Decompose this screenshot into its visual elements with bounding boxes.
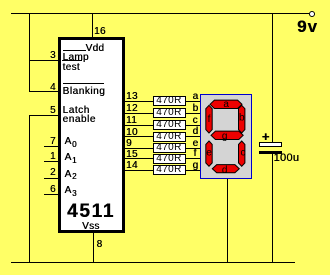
capacitor C1 top plate — [259, 142, 282, 147]
wire pin 3 — [29, 60, 60, 61]
svg-text:b: b — [239, 113, 245, 124]
net label f — [194, 149, 197, 159]
wire top 9v rail — [11, 13, 309, 14]
IC U1 4511 body — [58, 37, 126, 234]
wire pin 7 stub — [44, 146, 60, 147]
part number 4511 — [67, 202, 115, 221]
pin number 11 — [126, 116, 137, 126]
pin number 13 — [126, 92, 138, 102]
pin number 16 — [94, 27, 106, 37]
net label e — [193, 139, 199, 149]
pin number 7 — [50, 137, 56, 147]
pin number 9 — [126, 139, 132, 149]
pin number 6 — [50, 185, 56, 195]
wire pin 6 stub — [44, 194, 60, 195]
net label d — [193, 127, 199, 137]
wire output pin 11 to segment c — [123, 125, 201, 126]
pin label Lamp test — [63, 53, 89, 63]
wire capacitor to ground rail — [272, 154, 273, 262]
pin number 1 — [50, 152, 56, 162]
wire ground rail — [11, 262, 295, 263]
pin label Vdd — [86, 44, 105, 54]
wire output pin 10 to segment d — [123, 136, 201, 137]
pin number 15 — [126, 150, 138, 160]
pin number 4 — [50, 83, 56, 93]
overline for Lamp test — [63, 50, 86, 51]
resistor R5 470R — [153, 143, 186, 153]
pin label A2 — [65, 170, 72, 180]
value label 100u — [274, 153, 300, 164]
svg-text:g: g — [222, 131, 228, 142]
wire output pin 15 to segment f — [123, 158, 201, 159]
segment b — [239, 105, 245, 133]
resistor R4 470R — [153, 132, 186, 142]
resistor R6 470R — [153, 154, 186, 164]
label 9v — [297, 18, 318, 35]
wire output pin 13 to segment a — [123, 101, 201, 102]
pin number 12 — [126, 104, 138, 114]
wire left vertical from rail to pins 3 and 4 — [29, 13, 30, 92]
wire pin 5 — [29, 115, 60, 116]
wire output pin 9 to segment e — [123, 148, 201, 149]
pin label Blanking — [63, 87, 106, 97]
net label a — [193, 92, 199, 102]
segment a — [210, 100, 242, 108]
pin number 8 — [97, 240, 103, 250]
segment c — [239, 141, 245, 166]
wire capacitor vertical from 9v rail — [272, 13, 273, 142]
pin number 14 — [126, 161, 138, 171]
wire pin 16 from rail to IC top — [92, 13, 93, 39]
wire pin 4 — [29, 91, 60, 92]
capacitor C1 plus sign — [262, 130, 270, 143]
resistor R1 470R — [153, 96, 186, 106]
segment g — [211, 131, 243, 139]
resistor R2 470R — [153, 108, 186, 118]
pin number 5 — [50, 106, 56, 116]
svg-text:a: a — [223, 99, 229, 110]
wire pin 8 from IC bottom to ground rail — [93, 231, 94, 262]
wire output pin 14 to segment g — [123, 170, 201, 171]
node 9v terminal — [309, 11, 315, 17]
wire pin 2 stub — [44, 178, 60, 179]
pin number 10 — [126, 128, 138, 138]
7-segment display DS1 — [200, 94, 252, 179]
pin label Latch enable — [63, 106, 90, 116]
overline for Blanking — [63, 83, 104, 84]
pin label A0 — [65, 137, 72, 147]
net label b — [193, 104, 199, 114]
wire output pin 12 to segment b — [123, 113, 201, 114]
pin label A3 — [65, 186, 72, 196]
pin label Vss — [82, 222, 100, 232]
capacitor C1 bottom plate — [259, 151, 282, 154]
wire display cathode to ground rail — [227, 177, 228, 262]
svg-text:f: f — [208, 114, 211, 125]
pin label A1 — [65, 153, 72, 163]
wire left vertical from pin 5 to ground rail — [29, 115, 30, 262]
segment e — [206, 141, 212, 166]
svg-text:d: d — [222, 165, 228, 176]
net label c — [193, 116, 198, 126]
wire pin 1 stub — [44, 161, 60, 162]
pin number 2 — [50, 168, 56, 178]
segment f — [206, 105, 212, 133]
net label g — [193, 161, 199, 171]
segment d — [212, 165, 239, 173]
resistor R3 470R — [153, 120, 186, 130]
pin number 3 — [50, 51, 56, 61]
resistor R7 470R — [153, 165, 186, 175]
svg-text:c: c — [241, 148, 246, 159]
svg-text:e: e — [206, 148, 212, 159]
